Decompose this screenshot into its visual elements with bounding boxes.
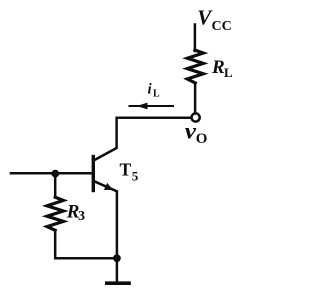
svg-text:O: O (196, 131, 208, 147)
svg-text:i: i (148, 82, 153, 98)
svg-text:L: L (224, 65, 233, 80)
svg-text:R: R (211, 57, 225, 78)
svg-text:T: T (120, 159, 132, 179)
svg-text:3: 3 (78, 209, 85, 224)
svg-text:5: 5 (132, 168, 139, 183)
svg-text:CC: CC (212, 19, 232, 34)
svg-text:L: L (153, 89, 160, 100)
svg-text:v: v (185, 118, 197, 144)
